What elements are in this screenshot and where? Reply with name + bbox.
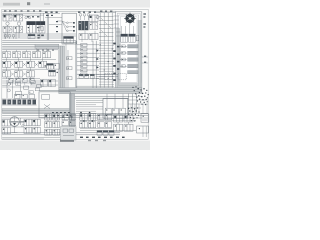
wire noise y33-39 [2,34,76,38]
gauge trio c [12,35,15,38]
valve D3 [79,21,89,30]
port bar F4 [128,45,138,48]
valve L1a [3,52,11,58]
port bar F5 [128,51,138,54]
pipe band H1 [35,44,59,48]
header small smudge [44,3,50,5]
ladder rail x104 [103,13,105,88]
wire drop x136.6 [136,94,138,114]
wire bus y44.4 [2,43,35,45]
speckle cluster SP2 [128,107,140,121]
valve D5 [79,33,88,39]
gauge trio a [4,35,7,38]
valve BC1e [45,129,52,135]
valve BRRd [124,124,133,131]
gauge M1b [7,89,10,92]
gauge circle T1 [96,16,99,19]
header title smudge [3,3,20,6]
arrow glyph g1 [97,49,99,51]
wire L rows link [2,60,56,79]
valve L2c [27,61,35,67]
wire noise y80-88 [2,81,58,87]
gauge M1a [7,83,10,86]
wire y118 [2,117,60,119]
valve BC3b [69,114,75,119]
wire vertical rail x49 [48,13,50,40]
wire noise bottom [2,118,136,139]
tank box B2 [39,91,76,118]
junction dots BR [80,112,93,122]
valve L2a [3,61,11,67]
wire top bus b [2,14,44,16]
bar glyph G4 [122,45,126,48]
junction dots BC [57,114,72,117]
valve M2a [41,79,48,87]
dashed box E5 [105,73,113,79]
wire stubs right of frame [142,57,148,63]
pump P1 [10,117,24,133]
sensor under rail x40 [39,26,43,30]
top margin band [0,0,150,8]
ladder rail x100 [99,13,101,88]
port box BRb [137,126,149,133]
valve L1c [23,52,31,58]
wire bus y46.2 [2,45,35,47]
valve L3b [15,71,23,77]
wire D stubs [82,22,95,42]
valve BC1f [53,129,60,135]
wire drop x132.6 [132,94,134,114]
glyph row M0a [9,78,14,85]
spec row bottom [80,137,125,138]
valve A2 [14,14,23,21]
wire L stubs [7,49,47,79]
valve BR1c [80,122,88,128]
bottom margin band [0,141,150,150]
valve L2b [15,61,23,67]
cooler box BC2 [61,127,76,140]
valve BC1b [53,114,60,120]
footer ticks [88,140,106,141]
pipe band V2 [69,94,74,131]
wire drops right lower [131,104,147,113]
valve A3 [3,26,12,32]
icon row C3 [67,30,75,32]
mini module P row a [79,74,83,78]
specks under H1 [37,49,54,50]
module row BM a [97,131,102,136]
wire bus y48 [2,47,35,49]
stub marks right [144,56,146,63]
wire bottom bus a [2,112,148,114]
fan wires C [57,21,66,31]
valve BC3c [62,121,68,126]
wire vertical rail x40 [39,13,41,30]
mini circles top [25,17,31,19]
mini module P row c [90,74,94,78]
valve B1 [27,21,36,33]
manifold row DK1 [2,99,37,105]
module TL dark [28,34,35,38]
bar glyph G7 [122,65,126,68]
valve BC1c [45,122,52,128]
junction dots grid [100,44,113,79]
valve BR2a [98,114,105,120]
sensor M1e [16,91,22,94]
ladder rungs top [99,16,113,36]
motor cluster F1 [124,13,136,25]
pipe band H3 [2,109,69,113]
valve A1 [3,14,12,21]
wire top bus a [2,12,60,14]
sensor mid b [37,85,42,88]
pipe band H2 [59,88,142,94]
port box BRa [141,114,149,122]
sensor mid c [29,91,34,94]
module row BM b [103,131,108,136]
gauge trio b [8,35,11,38]
valve BC3a [62,114,68,119]
wire pump links [10,121,24,127]
valve BR1a [80,114,88,121]
mid verticals x66-75 [66,41,75,88]
valve BC1a [45,114,52,120]
wire bus y40.8 [2,40,76,42]
valve K3 [49,70,56,76]
wire y134.8 [2,134,120,136]
wire y96.4 [75,95,129,97]
valve BR1b [88,114,96,121]
sensor M1c [16,82,21,85]
pipe band V1 [59,46,65,88]
glyph row M0b [16,78,21,85]
valve BR2b [105,114,112,120]
box C pilot manifold [62,13,76,44]
wire top line y11.2 [2,10,116,12]
marks under B2 [37,35,43,39]
valve D2 [89,15,98,22]
valve F2 [121,34,128,42]
icon row C2 [67,26,75,28]
wire bottom drops [10,120,128,126]
rung wires R1 [77,45,99,79]
wire vertical rail x47 [46,13,48,40]
wire vertical rail x43 [42,13,44,21]
valve F3 [129,34,139,42]
port bar F6 [128,58,138,61]
valve BL1a [2,120,10,126]
valve D6 [89,33,98,39]
valve BR1d [88,122,96,128]
wire rail x96 [95,41,97,88]
glyph mid q3 [67,77,72,80]
valve BL2d [33,127,41,133]
label row top-left [4,10,58,13]
glyph row M0c [23,78,28,85]
sensor M1d [24,86,29,89]
tick marks ladder [101,18,111,36]
wire top-right link [96,12,116,14]
valve BL1b [2,128,10,134]
fittings above DK1 [15,94,35,98]
check column R1 glyphs [81,44,87,76]
valve BR2c [98,122,105,128]
valve BR2d [105,122,112,128]
wire bundle to dashed boxes [96,75,118,79]
valve BC1d [53,122,60,128]
pilot circle A2 [17,22,20,25]
wire drop x128.6 [128,94,130,114]
wire M1 links [2,80,20,98]
wire y98.2 [75,97,129,99]
junction dots K [45,65,58,73]
rungs right ladder [99,40,114,84]
valve BL2b [33,119,41,126]
label specks mid-top [27,11,112,33]
valve BL2a [24,119,32,126]
footer label block [60,139,74,141]
wire frame verticals [114,16,134,36]
valve L1b [13,52,21,58]
valve D4 [89,23,97,29]
valve BRRa [114,115,123,122]
valve L1d [33,52,41,58]
valve BC3d [69,121,75,126]
glyph mid q2 [67,67,72,70]
ladder rail x108 [107,13,109,88]
spring marks L rows [11,63,38,76]
valve L2d [39,61,47,67]
wire bus y49.8 [2,49,58,51]
port bar F7 [128,64,138,67]
valve block B3 [103,99,128,119]
bar glyph G5 [122,52,126,55]
valve BRRb [124,115,133,122]
wire y86 [76,85,114,87]
valve L1e [43,52,51,58]
valve L3c [27,71,35,77]
valve K1 [47,64,54,70]
speckle cluster SP1 [132,86,148,105]
specks right of frame [143,13,146,27]
wire bottom bus b [2,114,148,116]
wire stubs under valves [5,25,40,39]
module C4 [64,37,74,44]
valve BRRc [114,124,123,131]
arrow glyph g3 [97,66,99,68]
ladder rail x112 [111,13,113,88]
arrow glyph g2 [97,58,99,60]
subsystem frame F nested walls [116,12,142,93]
mini module P row b [85,74,89,78]
valve A4 [14,26,23,32]
valve D1 [79,14,90,21]
module row BM c [109,131,114,136]
valve L3a [3,71,11,77]
valve B2 [36,21,45,33]
valve K2 [54,64,59,70]
valve M2b [49,79,56,87]
bar glyph G6 [122,58,126,61]
icon row C1 [67,22,75,24]
sensor mid a [31,81,36,84]
wire bar feeds [120,44,127,68]
port bar F9 [128,71,138,74]
specks above BC [52,112,70,113]
wire noise mid right [76,96,148,108]
wall glyphs left [113,43,119,81]
gauge trio stems [6,37,14,39]
glyph row M0d [30,78,35,85]
wire bus y42.6 [2,42,76,44]
sheet background [0,8,150,141]
wire noise below B3 left [76,107,103,111]
valve BL2c [24,127,32,133]
glyph mid q1 [67,57,72,60]
wire right lower links [80,118,148,137]
sensor mid d [35,88,39,91]
wire y132.8 [2,132,120,134]
dashed box F8 [118,73,126,79]
pilot circle A1 [6,22,9,25]
wire links x45-61 [45,18,62,25]
wire drops H2 to B3 [107,94,123,99]
wire rail x77 [76,41,78,88]
wire rail x93 [92,41,94,88]
sheet border [2,9,148,139]
header mark [27,2,30,5]
